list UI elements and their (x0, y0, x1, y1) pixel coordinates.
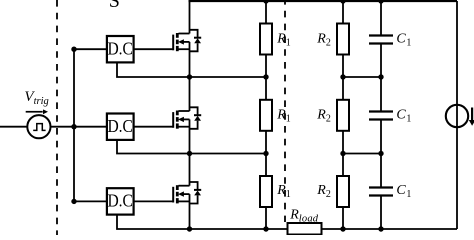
wire bus to D.C 3 input (74, 200, 107, 202)
driver block D.C 2 (107, 114, 134, 140)
dashed boundary line (left) (56, 0, 58, 235)
source Vtrig (pulse source circle) (27, 115, 50, 138)
dashed boundary line (middle) (284, 0, 286, 222)
node C1 row2 (378, 151, 383, 156)
node R1 bottom (263, 226, 268, 231)
wire current source to bottom rail (456, 127, 458, 230)
node R1 row2 (263, 151, 268, 156)
resistor R2 (row 2) (337, 77, 349, 154)
pulse waveform symbol (33, 124, 45, 131)
node bus/D.C1 (71, 47, 76, 52)
right edge wire (rail to current source) (456, 1, 458, 106)
svg-text:D.C: D.C (107, 116, 133, 136)
bottom rail wire (left of Rload) (117, 215, 288, 229)
resistor R2 (row 3) (337, 154, 349, 230)
body diode D2 (190, 107, 202, 129)
node R2 top rail (340, 0, 345, 4)
svg-text:D.C: D.C (107, 38, 133, 58)
capacitor C1 (row 3) (369, 154, 393, 230)
transistor M2 (with body diode) (173, 77, 189, 154)
resistor R2 (row 1) (337, 1, 349, 77)
capacitor C1 (row 1) (369, 1, 393, 77)
top rail wire (189, 0, 458, 2)
trigger bus vertical wire (73, 49, 75, 201)
resistor R1 (row 3) (260, 154, 272, 230)
svg-text:D.C: D.C (107, 191, 133, 211)
driver block D.C 1 (107, 36, 134, 62)
current source (446, 104, 468, 127)
resistor Rload (288, 223, 322, 235)
capacitor C1 (row 2) (369, 77, 393, 154)
resistor R1 (row 2) (260, 77, 272, 154)
arrow above Vtrig source (26, 109, 48, 114)
driver block D.C 3 (107, 188, 134, 214)
node bus/D.C3 (71, 199, 76, 204)
resistor R1 (row 1) (260, 1, 272, 77)
svg-text:S: S (109, 0, 120, 12)
node M1 source row (187, 74, 192, 79)
node C1 top rail (378, 0, 383, 4)
node M3 source row (187, 226, 192, 231)
wire R2 row1 to C1 column (343, 76, 381, 78)
wire left edge to Vtrig source (0, 126, 27, 128)
wire bus to D.C 1 input (74, 48, 107, 50)
node C1 bottom (378, 226, 383, 231)
body diode D1 (190, 30, 202, 52)
load current arrow (469, 108, 474, 126)
transistor M3 (with body diode) (173, 154, 189, 230)
wire R2 row2 to C1 column (343, 153, 381, 155)
wire source row 2 to R1 column (190, 153, 267, 155)
wire D.C1 output to M1 gate (134, 48, 173, 50)
node bus/Vtrig (71, 124, 76, 129)
wire D.C2 bottom to source row (117, 140, 189, 154)
wire D.C3 output to M3 gate (134, 200, 173, 202)
wire source row 1 to R1 column (190, 76, 267, 78)
wire Vtrig source to D.C 2 input (51, 126, 107, 128)
node C1 row1 (378, 74, 383, 79)
node R1 row1 (263, 74, 268, 79)
bottom rail wire (right of Rload) (322, 228, 458, 230)
wire D.C2 output to M2 gate (134, 126, 173, 128)
wire D.C1 bottom to source row (117, 62, 189, 77)
node R2 row1 (340, 74, 345, 79)
node R2 row2 (340, 151, 345, 156)
node R2 bottom (340, 226, 345, 231)
node R1 top rail (263, 0, 268, 4)
transistor M1 (with body diode) (173, 1, 189, 77)
body diode D3 (190, 182, 202, 204)
node M2 source row (187, 151, 192, 156)
